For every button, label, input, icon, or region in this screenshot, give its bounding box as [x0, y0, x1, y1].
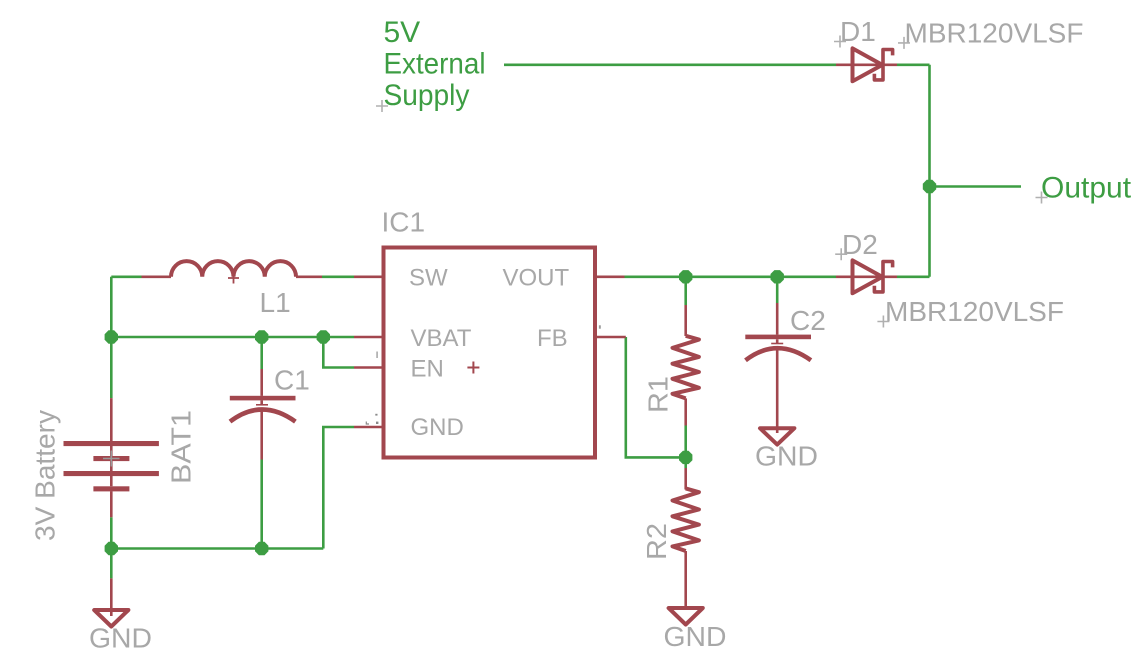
label GND (battery): [89, 623, 152, 654]
pin EN stub: [354, 366, 382, 369]
junction node C2-top: [771, 270, 784, 283]
diode D2: [836, 260, 897, 293]
capacitor C1: [230, 369, 296, 460]
junction node R1-top: [679, 270, 692, 283]
label MBR120VLSF (D1): [905, 18, 1084, 49]
pin label VBAT: [411, 325, 472, 352]
pin VOUT stub: [597, 275, 625, 278]
pin SW stub: [354, 275, 382, 278]
svg-text:D2: D2: [842, 229, 878, 260]
wire supply top: [504, 64, 836, 67]
svg-text:5V: 5V: [384, 16, 421, 49]
wire C1 top: [260, 337, 263, 369]
svg-text:FB: FB: [537, 325, 568, 352]
pin label EN: [411, 356, 444, 383]
wire FB jog: [626, 337, 686, 457]
junction node VBAT-left: [105, 330, 118, 343]
svg-text:IC1: IC1: [382, 207, 426, 238]
svg-text:L1: L1: [260, 287, 291, 318]
battery BAT1: [64, 398, 159, 517]
svg-text:MBR120VLSF: MBR120VLSF: [905, 18, 1084, 49]
svg-text:VOUT: VOUT: [503, 265, 570, 292]
svg-text:Supply: Supply: [384, 79, 470, 112]
text origin cross D2: [835, 248, 847, 260]
svg-text:GND: GND: [411, 414, 464, 441]
IC U1 box: [384, 248, 596, 458]
IC origin cross: [467, 362, 479, 374]
svg-text:D1: D1: [840, 16, 876, 47]
ground symbol under battery: [94, 578, 128, 626]
label IC1: [382, 207, 426, 238]
wire EN jog: [323, 337, 354, 368]
svg-text:C1: C1: [274, 365, 310, 396]
junction node battery-bottom: [105, 542, 118, 555]
label D1: [840, 16, 876, 47]
pin label VOUT: [503, 265, 570, 292]
wire C1 bottom: [260, 460, 263, 549]
pin label FB: [537, 325, 568, 352]
label 3V Battery: [30, 410, 61, 541]
wire vertical output bus: [928, 65, 931, 277]
svg-text:BAT1: BAT1: [166, 410, 197, 484]
junction node VBAT: [317, 330, 330, 343]
resistor R2: [673, 468, 699, 607]
junction node C1-top: [255, 330, 268, 343]
wire top-left horizontal: [111, 275, 141, 278]
net label 5V External Supply: [384, 16, 486, 112]
svg-text:Output: Output: [1041, 172, 1132, 205]
junction node output: [923, 180, 936, 193]
wire VBAT row: [111, 336, 354, 339]
text origin cross Output: [1036, 192, 1048, 204]
svg-text:GND: GND: [89, 623, 152, 654]
svg-text:GND: GND: [664, 621, 727, 652]
wire D2 cathode: [897, 275, 930, 278]
label C2: [790, 305, 826, 336]
label R2: [641, 523, 672, 560]
wire output stub: [930, 185, 1022, 188]
svg-text:MBR120VLSF: MBR120VLSF: [885, 296, 1064, 327]
svg-text:GND: GND: [755, 441, 818, 472]
inductor L1: [142, 261, 323, 283]
wire inductor to SW: [322, 275, 354, 278]
wire C2 top: [776, 277, 779, 303]
pin number marks GND pin: [366, 414, 378, 424]
pin 1 tick: [376, 352, 378, 359]
diode D1: [836, 48, 897, 81]
label GND (R2): [664, 621, 727, 652]
wire left vertical: [110, 277, 113, 398]
resistor R1: [673, 305, 699, 426]
wire R1 top: [684, 277, 687, 305]
svg-text:R2: R2: [641, 523, 672, 560]
text origin cross Supply: [376, 100, 388, 112]
capacitor C2: [745, 303, 811, 433]
wire battery bottom row: [111, 517, 323, 578]
label GND (C2): [755, 441, 818, 472]
pin FB stub: [597, 336, 626, 339]
svg-text:R1: R1: [643, 376, 674, 413]
label R1: [643, 376, 674, 413]
svg-text:SW: SW: [409, 265, 448, 292]
svg-text:3V Battery: 3V Battery: [30, 410, 61, 541]
svg-text:External: External: [384, 48, 486, 81]
wire R1 bottom: [684, 426, 687, 458]
wire R2 top: [684, 457, 687, 468]
pin label SW: [409, 265, 448, 292]
junction node C1-bottom: [255, 542, 268, 555]
ground symbol under R2: [669, 608, 703, 625]
svg-text:VBAT: VBAT: [411, 325, 472, 352]
pin GND stub: [354, 426, 382, 429]
net label Output: [1041, 172, 1132, 205]
label D2: [842, 229, 878, 260]
ground symbol under C2: [760, 428, 794, 444]
wire D1 cathode to corner: [897, 64, 930, 67]
junction node FB: [679, 451, 692, 464]
label BAT1: [166, 410, 197, 484]
svg-text:EN: EN: [411, 356, 444, 383]
svg-text:C2: C2: [790, 305, 826, 336]
text origin cross MBR (D1): [898, 37, 910, 49]
text origin cross D1: [834, 36, 846, 48]
label C1: [274, 365, 310, 396]
wire GND-pin jog: [323, 427, 354, 549]
label MBR120VLSF (D2): [885, 296, 1064, 327]
wire VOUT row: [625, 275, 837, 278]
pin VBAT stub: [354, 336, 382, 339]
label L1: [260, 287, 291, 318]
pin number mark FB pin: [599, 325, 601, 328]
pin label GND: [411, 414, 464, 441]
text origin cross MBR (D2): [877, 316, 889, 328]
